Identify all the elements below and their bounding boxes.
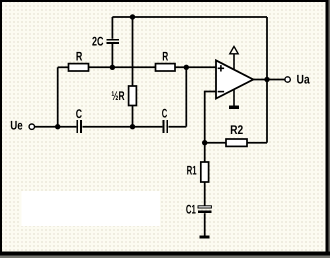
op-amp ground bar [229,106,239,109]
svg-text:R: R [162,49,168,63]
op-amp plus sign [218,65,224,71]
svg-text:C: C [162,107,168,121]
op-amp ground stem [233,89,235,106]
wire R2 left lead [205,142,226,144]
junction 2C and R row [110,65,115,70]
wire R row middle [89,66,156,68]
svg-text:½R: ½R [111,89,124,103]
resistor R right [156,64,176,71]
bottom ground bar [200,236,210,239]
resistor R1 [201,162,209,182]
junction feedback node [202,140,207,145]
wire op-amp output [253,79,285,81]
wire riser to plus input [185,67,187,126]
wire R row right to op-amp [175,66,216,68]
terminal Ue circle [29,124,34,129]
svg-text:C: C [76,107,82,121]
wire 2C upper stem [111,17,113,39]
svg-text:R: R [76,50,83,64]
capacitor C1 plates [198,206,212,213]
wire bottom rail seg3 [169,126,187,128]
wire output right column [266,17,268,143]
wire minus input [205,92,216,143]
junction output node [264,77,269,82]
capacitor 2C plates [106,39,119,44]
power arrow head [230,46,238,53]
wire R2 right lead [247,142,267,144]
wire top rail [112,16,267,18]
junction bottom rail left [55,124,60,129]
svg-text:R1: R1 [187,164,197,178]
junction plus input node [184,65,189,70]
wire halfR tap lower [132,106,134,127]
svg-text:2C: 2C [92,34,104,48]
terminal Ua circle [285,77,290,82]
wire 2C lower stem [111,44,113,68]
svg-text:R2: R2 [230,123,243,137]
capacitor C right plates [163,120,169,133]
junction top rail [130,14,135,19]
wire halfR tap upper [132,17,134,86]
wire left drop [57,67,59,126]
white blank rectangle [22,191,161,226]
junction bottom rail middle [130,124,135,129]
wire R1 to C1 [204,182,206,206]
wire bottom rail seg2 [83,126,163,128]
wire C1 to ground [204,213,206,235]
svg-text:Ue: Ue [10,119,23,133]
op-amp minus sign [218,91,224,93]
wire feedback node to R1 [204,143,206,162]
resistor halfR [129,86,137,106]
resistor R2 [226,139,247,146]
power arrow stem [233,54,235,70]
resistor R left [69,64,89,71]
op-amp U1 [216,60,253,98]
svg-text:C1: C1 [186,202,196,216]
wire R row left [58,66,69,68]
wire bottom rail seg1 [35,126,77,128]
capacitor C left plates [76,120,82,133]
svg-text:Ua: Ua [297,73,311,87]
